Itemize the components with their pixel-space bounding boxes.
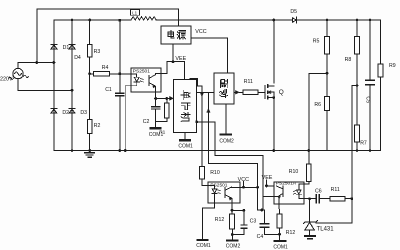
wire R10 to opto2 LED [202, 179, 208, 185]
node junction riser/upper-terminal [35, 61, 38, 64]
opto U4 LED [203, 186, 218, 240]
optocoupler U4 box [208, 182, 240, 203]
capacitor C2 [152, 107, 160, 109]
resistor R3 [87, 45, 92, 58]
arrow driver output [236, 91, 240, 95]
capacitor C4 [260, 224, 269, 228]
node junction bus/R2 [88, 149, 91, 152]
opto U5 LED [296, 184, 301, 199]
wire MCU signal A staircase [190, 79, 202, 167]
diode D4 [69, 44, 75, 49]
node junction VEE stub [265, 185, 268, 188]
resistor R4 [94, 72, 110, 76]
svg-text:VEE: VEE [262, 175, 273, 181]
svg-text:D1: D1 [63, 45, 70, 51]
wire R5-R6 branch [326, 20, 328, 151]
resistor R7 [355, 125, 360, 142]
driver U3 box [214, 73, 234, 104]
MCU U2 box [174, 80, 197, 133]
wire C5 branch [369, 20, 371, 151]
wire sense to TL431 ref [316, 199, 352, 224]
node junction bus/R7 [356, 149, 359, 152]
node junction feedback/TL431 [308, 197, 311, 200]
svg-text:PS2501A: PS2501A [276, 180, 297, 186]
node junction MCU pin P [195, 120, 198, 123]
diode D2 [51, 109, 57, 114]
arrow into MCU [170, 96, 174, 100]
node junction collector/VCC [242, 186, 245, 189]
svg-text:VCC: VCC [195, 29, 206, 35]
arrow down on wire A [200, 93, 203, 97]
resistor R5 [325, 36, 330, 53]
svg-text:220V: 220V [0, 77, 13, 83]
wire R11 to gate [258, 91, 265, 93]
opto U4 phototransistor [225, 187, 240, 211]
arrow up on wire B [207, 109, 210, 113]
ground TL431 [305, 235, 315, 237]
wire VEE to opto1 collector [161, 62, 173, 74]
inductor L1 [131, 17, 156, 20]
diode D3 [69, 109, 75, 114]
node junction bus/C1 [118, 149, 121, 152]
wire R8 branch [356, 20, 358, 125]
wire collector row [240, 186, 257, 188]
svg-text:TL431: TL431 [317, 226, 335, 232]
node junction VEE [172, 60, 175, 63]
wire C3 stub [232, 210, 244, 234]
svg-text:COM1: COM1 [178, 144, 193, 150]
wire bridge branch 2 [71, 20, 73, 151]
wire Q drain [273, 20, 275, 83]
svg-text:R3: R3 [94, 49, 101, 55]
resistor R2 [87, 120, 92, 134]
capacitor C6 [316, 195, 319, 203]
resistor R11 (feedback) [330, 197, 345, 201]
svg-text:R11: R11 [244, 79, 253, 85]
svg-text:R6: R6 [314, 102, 321, 108]
wire VEE to MCU top [173, 62, 185, 80]
node junction Q source mid [272, 96, 275, 99]
wire MCU right pin to driver [196, 91, 214, 93]
wire U5 emitter drop [278, 204, 281, 214]
node junction R4/C1 [118, 72, 121, 75]
wire VCC to driver [191, 38, 227, 73]
wire C1 branch [119, 20, 121, 151]
resistor R1 [165, 103, 170, 118]
node junction bus/branch-2 [71, 19, 74, 22]
wire R9 branch [380, 20, 382, 151]
wire tap to sense branch [309, 72, 327, 74]
node junction bus/C5 [369, 149, 372, 152]
capacitor C5 [366, 80, 374, 85]
svg-text:R4: R4 [102, 65, 109, 71]
wire MCU ground stub [184, 133, 186, 140]
wire MCU signal B staircase [209, 92, 258, 210]
wire AC drop to power module [178, 9, 180, 26]
wire R4 row [90, 73, 131, 75]
wire AC top line [37, 8, 179, 10]
svg-text:C2: C2 [143, 119, 150, 125]
svg-text:R8: R8 [345, 57, 352, 63]
node junction R5/R6 tap [326, 72, 329, 75]
node junction bus/C5 [369, 19, 372, 22]
svg-text:R11: R11 [331, 187, 340, 193]
svg-text:Q: Q [279, 89, 284, 96]
svg-text:R9: R9 [389, 63, 396, 69]
resistor R8 [355, 36, 360, 53]
node junction R8/R7 tap [356, 84, 359, 87]
opto U5 phototransistor (mirrored) [274, 186, 283, 204]
svg-text:L1: L1 [132, 10, 137, 15]
svg-text:C1: C1 [105, 87, 112, 93]
node junction R12/C3 bottom [231, 233, 234, 236]
svg-text:C4: C4 [257, 234, 264, 240]
node junction bus/branch2-bottom [71, 149, 74, 152]
capacitor C1 [116, 93, 124, 96]
ground COM2 (under driver) [221, 133, 231, 135]
svg-text:C6: C6 [315, 189, 322, 195]
wire emitter row to C3 [232, 209, 244, 211]
node junction C3 top [243, 209, 246, 212]
svg-text:R5: R5 [313, 38, 320, 44]
svg-text:COM1: COM1 [273, 244, 288, 250]
svg-text:R12: R12 [286, 230, 296, 236]
wire R7 bottom [356, 142, 358, 150]
wire jog tap [352, 85, 357, 87]
svg-text:D2: D2 [62, 110, 69, 116]
svg-text:COM1: COM1 [149, 132, 164, 138]
svg-text:C5: C5 [364, 96, 370, 103]
wire VEE stub [172, 44, 174, 62]
transistor Q (MOSFET) [264, 85, 266, 98]
node junction wires B/P/C4 [260, 209, 263, 212]
resistor R10 (right) [307, 164, 312, 181]
wire R1 top stub [166, 99, 168, 104]
wire VCC stub (U4) [243, 181, 245, 187]
svg-text:COM2: COM2 [219, 139, 234, 145]
wire driver ground stub [225, 104, 227, 134]
svg-text:C3: C3 [250, 218, 257, 224]
resistor R6 [325, 97, 330, 111]
label L1 box [131, 10, 140, 15]
svg-text:COM1: COM1 [196, 243, 211, 249]
node junction bus/Q-source [272, 149, 275, 152]
node junction bus/C1-branch [118, 19, 121, 22]
diode D1 [51, 44, 57, 49]
svg-text:D5: D5 [290, 9, 297, 15]
wire bridge branch 1 [53, 20, 55, 151]
optocoupler U5 box [274, 182, 304, 204]
wire sense branch down to R10 right [308, 73, 310, 164]
wire emitter to node [155, 92, 157, 106]
svg-text:D3: D3 [80, 110, 87, 116]
svg-text:VCC: VCC [238, 177, 249, 183]
wire feedback row [310, 198, 352, 200]
label MCU text 单片机 [181, 91, 190, 100]
wire source lower terminal [18, 89, 72, 91]
node junction bus/R3 [88, 19, 91, 22]
resistor R12 (right resistor) [277, 214, 282, 228]
TL431 U6 [304, 199, 318, 235]
wire R10 to LED anode [299, 181, 309, 184]
ground earth (main) [85, 152, 94, 154]
wire AC source riser [36, 9, 38, 63]
svg-text:R12: R12 [215, 217, 225, 223]
ground COM1 (bottom right) [275, 240, 286, 242]
svg-text:R2: R2 [94, 123, 101, 129]
node junction bus/R8 [356, 19, 359, 22]
node junction bus/Q-drain [272, 19, 275, 22]
power module U-PWR box [161, 26, 191, 44]
node junction bus/R5 [326, 19, 329, 22]
ground COM1 (under C2) [151, 127, 161, 129]
label power module text 电源 [168, 31, 174, 38]
capacitor C3 [241, 225, 247, 228]
node junction feedback/sense [350, 197, 353, 200]
wire node210 row [258, 209, 265, 211]
node junction bus/sense-R10 [308, 149, 311, 152]
wire R3-R2 branch [89, 20, 91, 151]
node junction lower-terminal/bridge-branch-2 [71, 89, 74, 92]
svg-text:COM2: COM2 [226, 244, 241, 250]
optocoupler U1 box [131, 68, 161, 92]
node junction R1 top [165, 97, 168, 100]
label driver text 驱动 [220, 80, 227, 88]
wire driver output [234, 91, 236, 93]
node junction B-wire/collector [256, 186, 259, 189]
resistor R10 (left) [200, 167, 205, 180]
svg-text:D4: D4 [74, 55, 81, 61]
svg-text:R10: R10 [210, 170, 220, 176]
node junction C4/R12 bottom [278, 233, 281, 236]
svg-text:R7: R7 [360, 141, 367, 147]
node junction R4-left [88, 72, 91, 75]
wire R12 right bottom [279, 228, 281, 240]
resistor R11 (gate) [243, 90, 258, 94]
wire C4 stub [264, 210, 279, 234]
resistor R9 [378, 64, 383, 77]
wire C2 bottom [156, 109, 167, 127]
resistor R12 (left resistor) [230, 214, 235, 229]
opto U1 LED [125, 74, 139, 151]
diode D5 [292, 17, 296, 23]
AC source V1 220V [13, 68, 23, 78]
ground COM2 (under R12) [227, 239, 237, 241]
opto U1 phototransistor [149, 73, 161, 92]
svg-text:R10: R10 [289, 169, 299, 175]
wire to MCU left pin [156, 98, 170, 100]
wire VEE stub to collector [267, 180, 275, 186]
wire source upper terminal [18, 62, 54, 64]
node junction emitter U4 [231, 209, 234, 212]
node junction LED1 cathode/bottom bus [124, 149, 127, 152]
wire P-wire emitter tee [263, 196, 274, 198]
ground COM1 (under U4) [198, 239, 208, 241]
wire arrow to R11 [239, 91, 242, 93]
ground COM1 (under MCU) [180, 139, 190, 141]
wire rectified top bus [54, 19, 381, 21]
wire feedback sense drop [351, 86, 353, 199]
wire LED cathode out [299, 198, 310, 200]
node junction emitter/R1 row [154, 97, 157, 100]
wire Q source [273, 98, 275, 151]
wire R12 bottom [231, 210, 233, 239]
wire MCU signal P staircase [196, 122, 262, 210]
node junction upper-terminal/bridge-branch-1 [53, 61, 56, 64]
wire bottom return bus [54, 150, 381, 152]
